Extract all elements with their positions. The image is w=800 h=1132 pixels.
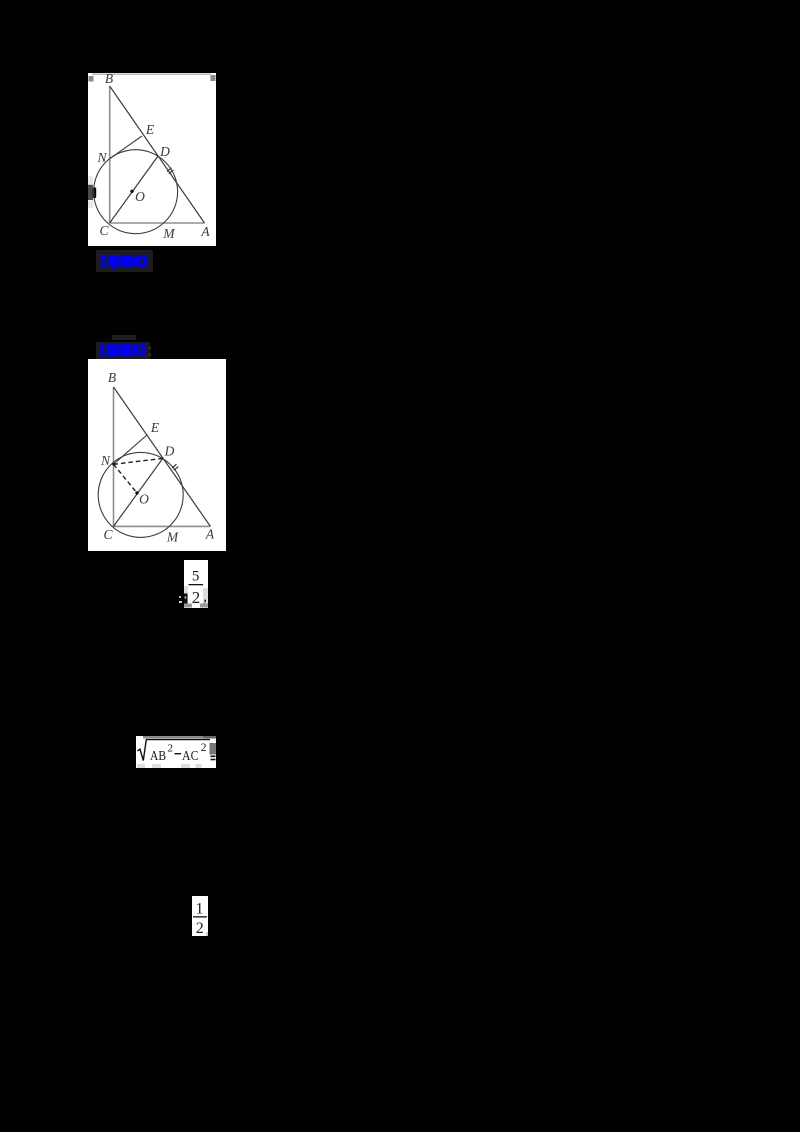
char 2 blob	[121, 255, 133, 267]
gray nub bottom right	[206, 932, 208, 936]
minus sign	[175, 753, 182, 754]
svg-text:M: M	[166, 529, 179, 544]
side AB (hypotenuse)	[114, 387, 211, 526]
black equals marks	[211, 756, 216, 758]
svg-text:2: 2	[201, 742, 207, 754]
blue heading 2 background box	[96, 342, 150, 359]
tick marks on AD	[167, 167, 172, 171]
black blob on circle left	[93, 187, 97, 198]
left bracket	[102, 255, 108, 267]
svg-text:N: N	[100, 453, 111, 468]
side BC (vertical light line)	[109, 86, 111, 223]
svg-text:E: E	[150, 420, 160, 435]
svg-text:,: ,	[203, 589, 207, 605]
figure box 1 (white panel with triangle + inscribed circle)	[88, 73, 216, 247]
dashed segment NO	[114, 464, 138, 493]
svg-text:O: O	[135, 189, 145, 204]
right gray block	[210, 743, 217, 755]
side AB (hypotenuse)	[110, 86, 205, 223]
node dot N	[112, 462, 115, 465]
svg-text:B: B	[108, 370, 116, 385]
top-right gray corner square	[211, 75, 216, 81]
svg-text:A: A	[205, 526, 215, 541]
bottom gray strip	[184, 604, 208, 608]
diameter CD	[114, 458, 163, 526]
svg-text:D: D	[159, 144, 170, 159]
left dark notch	[184, 594, 188, 604]
svg-text:E: E	[145, 122, 155, 137]
circle O	[98, 452, 183, 537]
svg-text:AB: AB	[150, 749, 166, 764]
fraction bar	[189, 584, 204, 585]
char 3 blob	[135, 256, 142, 267]
white speck in notch	[185, 597, 187, 599]
char 2 blob	[120, 344, 132, 356]
right bracket	[140, 344, 146, 356]
svg-text:B: B	[105, 73, 113, 86]
formula image sqrt(AB^2-AC^2)	[136, 736, 216, 768]
blue heading 2 glyphs	[100, 344, 153, 358]
svg-text:2: 2	[196, 920, 204, 936]
top-left gray corner square	[89, 76, 94, 82]
center dot O	[135, 491, 138, 494]
svg-text:O: O	[139, 491, 149, 506]
diameter CD	[110, 156, 158, 223]
blue heading 1 background box	[96, 250, 153, 272]
svg-text:A: A	[200, 224, 210, 239]
bottom light strips	[137, 764, 145, 768]
colon dots	[149, 347, 151, 350]
side CA (bottom light line)	[110, 222, 205, 224]
dashed segment ND	[114, 458, 163, 464]
right light gray column	[203, 588, 208, 604]
svg-text:1: 1	[196, 901, 204, 918]
white specks left of 5/2	[179, 596, 181, 598]
char 1 blob	[108, 345, 120, 357]
bottom strip white gap	[192, 604, 200, 608]
svg-text:C: C	[99, 223, 109, 238]
center dot O	[130, 189, 133, 192]
side CA (bottom light line)	[114, 525, 211, 527]
left edge light gray artifact	[88, 176, 93, 185]
svg-text:AC: AC	[182, 749, 199, 764]
blue heading 1 glyphs	[101, 255, 149, 272]
figure box 2 (white panel with dashed ND / NO)	[88, 359, 226, 552]
top right darker strip	[203, 736, 216, 739]
svg-text:N: N	[96, 150, 107, 165]
svg-text:2: 2	[168, 743, 174, 755]
left bracket	[101, 345, 107, 357]
left edge medium gray artifact	[88, 200, 93, 208]
fraction bar	[193, 916, 207, 917]
svg-text:C: C	[103, 527, 113, 542]
right bracket	[142, 255, 148, 267]
svg-text:D: D	[164, 443, 175, 458]
svg-text:M: M	[162, 226, 175, 241]
formula image 5/2	[184, 560, 208, 608]
side BC (vertical light line)	[113, 387, 115, 526]
tick marks on AD	[172, 464, 177, 468]
top gray strip	[143, 736, 203, 739]
top gray border line	[92, 73, 211, 75]
char 3 blob	[133, 345, 140, 356]
left light gray column	[184, 586, 188, 604]
left edge dark artifact	[88, 184, 93, 199]
segment EN	[114, 434, 148, 464]
radical sign	[138, 740, 211, 761]
formula image 1/2	[192, 896, 208, 936]
circle O	[94, 149, 178, 233]
small dark box above heading 2	[112, 335, 137, 341]
segment EN	[110, 136, 142, 159]
svg-text:5: 5	[192, 568, 200, 584]
char 1 blob	[109, 256, 121, 270]
